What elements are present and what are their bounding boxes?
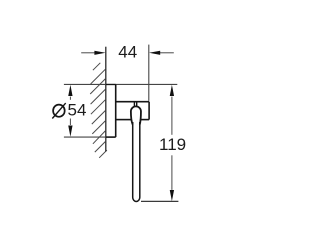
hanging bar (bulb + rod with rounded bottom): [133, 122, 140, 202]
bracket arm: [116, 102, 149, 120]
pivot pin: [134, 103, 136, 107]
wall face line: [105, 47, 107, 152]
extension line: long horizontal (plate top / dim extensions): [64, 83, 177, 85]
extension line: 44 right: [148, 45, 150, 101]
dimension Ø54 (left): [69, 97, 71, 125]
extension line: bottom of plate to Ø54: [64, 136, 106, 138]
wall hatching: [90, 63, 107, 158]
dimension 44 (top): [81, 52, 174, 54]
wall plate (rosette, side view): [106, 84, 116, 137]
svg-text:54: 54: [68, 101, 87, 120]
svg-text:44: 44: [118, 43, 137, 62]
svg-text:119: 119: [159, 135, 186, 154]
extension line: 119 bottom: [141, 200, 178, 202]
dimension 119 (right): [171, 97, 173, 190]
